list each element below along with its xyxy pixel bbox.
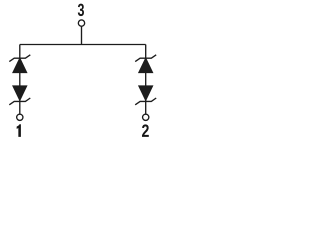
wire top rail bbox=[20, 44, 146, 46]
diode D3 anode triangle bbox=[139, 59, 152, 73]
diode D3 cathode zener bar bbox=[135, 55, 156, 62]
diode D1 anode triangle bbox=[13, 59, 26, 73]
diode D4 cathode zener bar bbox=[135, 98, 156, 105]
wire right branch bbox=[145, 45, 147, 114]
terminal 2 bbox=[143, 114, 149, 120]
diode D2 anode triangle bbox=[13, 86, 26, 100]
diode D2 cathode zener bar bbox=[9, 98, 30, 105]
terminal 1 bbox=[17, 114, 23, 120]
pin label 3 bbox=[78, 4, 84, 16]
pin label 2 bbox=[142, 124, 149, 136]
wire left branch bbox=[19, 45, 21, 114]
pin label 1 bbox=[17, 124, 21, 137]
terminal 3 bbox=[78, 20, 84, 26]
diode D1 cathode zener bar bbox=[9, 55, 30, 62]
wire pin3 drop bbox=[81, 26, 83, 44]
diode D4 anode triangle bbox=[139, 86, 152, 100]
